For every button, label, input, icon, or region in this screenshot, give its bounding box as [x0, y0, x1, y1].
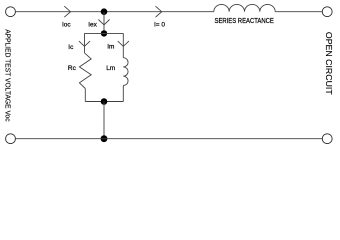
arrow I=0 — [156, 6, 162, 17]
svg-text:SERIES REACTANCE: SERIES REACTANCE — [215, 18, 275, 25]
terminal bottom-left — [6, 134, 16, 144]
arrow Iex — [98, 20, 109, 25]
terminal bottom-right — [322, 134, 332, 144]
arrow Ic — [79, 41, 90, 46]
wire branch bottom rail — [85, 101, 123, 103]
node branch top — [101, 30, 107, 36]
svg-text:Lm: Lm — [106, 65, 115, 72]
wire top right segment — [275, 11, 322, 13]
arrow Ioc — [64, 6, 70, 17]
wire right branch upper — [122, 33, 124, 57]
terminal top-right — [322, 7, 332, 17]
wire branch top rail — [85, 32, 124, 34]
wire left branch upper — [84, 33, 86, 53]
node branch bottom — [101, 98, 108, 105]
wire bottom — [15, 138, 322, 140]
svg-text:Im: Im — [107, 44, 114, 51]
svg-text:APPLIED TEST VOLTAGE Voc: APPLIED TEST VOLTAGE Voc — [4, 29, 13, 122]
node junction top — [101, 8, 108, 15]
wire right branch lower — [122, 86, 124, 102]
resistor Rc — [79, 53, 91, 89]
inductor Lm — [123, 58, 128, 86]
node junction bottom — [101, 135, 108, 142]
svg-text:Iex: Iex — [88, 22, 97, 29]
wire shunt to bottom — [103, 102, 105, 139]
svg-text:Ioc: Ioc — [62, 22, 71, 29]
svg-text:Ic: Ic — [68, 44, 74, 51]
terminal top-left — [6, 7, 16, 17]
arrow Im — [118, 41, 129, 46]
svg-text:Rc: Rc — [68, 65, 77, 72]
svg-text:OPEN CIRCUIT: OPEN CIRCUIT — [324, 32, 333, 95]
wire shunt drop — [103, 12, 105, 34]
wire left branch lower — [84, 89, 86, 102]
svg-text:I= 0: I= 0 — [154, 22, 165, 29]
inductor series reactance — [214, 4, 275, 11]
wire top left segment — [15, 11, 214, 13]
